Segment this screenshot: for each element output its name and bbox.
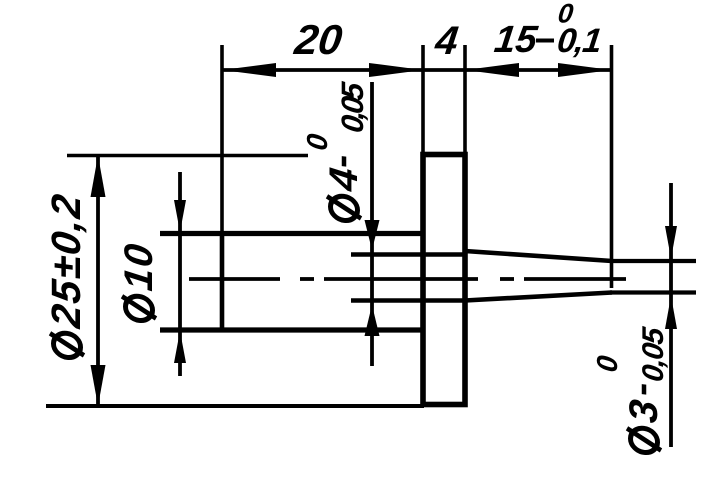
svg-text:0: 0: [302, 132, 334, 152]
svg-text:25±0,2: 25±0,2: [43, 190, 89, 331]
svg-text:0,1: 0,1: [555, 22, 603, 60]
svg-text:3: 3: [621, 397, 666, 425]
svg-text:15: 15: [492, 18, 540, 61]
svg-text:10: 10: [116, 240, 161, 293]
svg-text:0,05: 0,05: [335, 80, 370, 135]
svg-text:4: 4: [321, 165, 366, 194]
svg-text:4: 4: [432, 18, 461, 63]
svg-text:0: 0: [592, 354, 624, 374]
svg-text:0,05: 0,05: [637, 324, 670, 383]
svg-text:20: 20: [291, 16, 345, 63]
